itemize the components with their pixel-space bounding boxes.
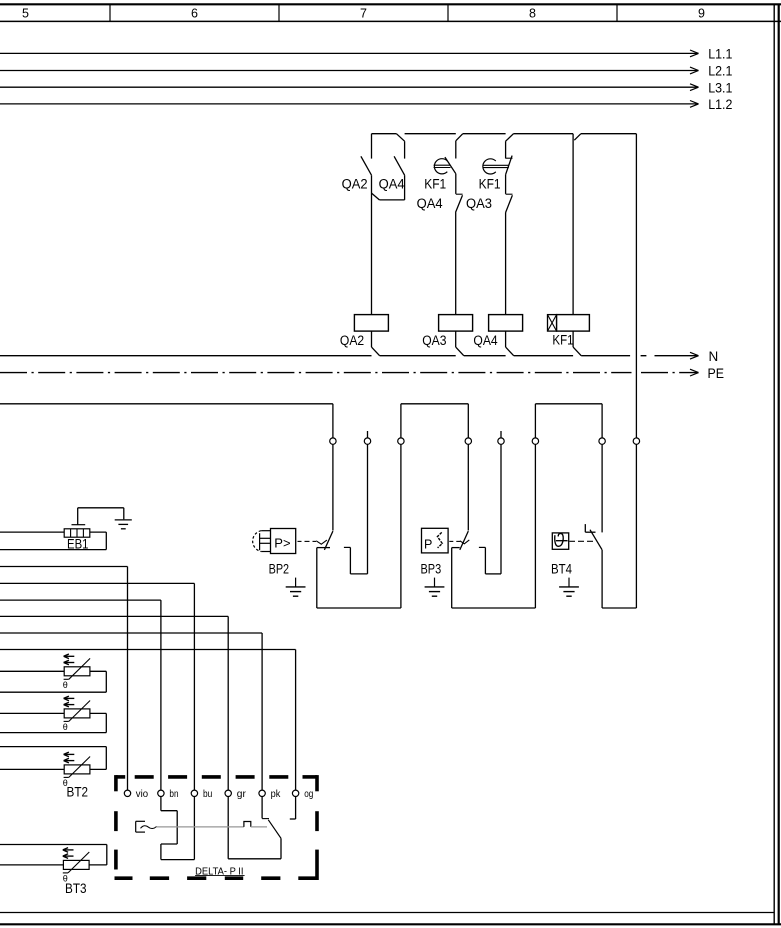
svg-text:QA3: QA3 — [466, 196, 492, 211]
svg-text:gr: gr — [237, 788, 247, 800]
svg-text:QA4: QA4 — [379, 176, 405, 191]
svg-text:QA4: QA4 — [417, 196, 443, 211]
svg-text:QA2: QA2 — [340, 333, 364, 348]
svg-text:8: 8 — [529, 7, 536, 21]
svg-text:KF1: KF1 — [479, 176, 501, 191]
svg-text:bn: bn — [169, 788, 178, 800]
svg-text:L3.1: L3.1 — [708, 80, 732, 95]
svg-text:bu: bu — [203, 788, 212, 800]
svg-text:6: 6 — [191, 7, 198, 21]
svg-text:QA2: QA2 — [342, 176, 368, 191]
svg-text:P>: P> — [274, 536, 290, 550]
svg-text:L1.2: L1.2 — [708, 97, 732, 112]
svg-text:5: 5 — [22, 7, 29, 21]
svg-text:EB1: EB1 — [67, 536, 89, 551]
svg-text:θ: θ — [63, 722, 68, 732]
svg-text:vio: vio — [136, 788, 148, 800]
svg-text:N: N — [709, 349, 719, 364]
svg-text:PE: PE — [708, 366, 725, 381]
svg-text:BT2: BT2 — [67, 784, 89, 799]
svg-text:P: P — [424, 537, 432, 551]
svg-text:BP2: BP2 — [269, 561, 290, 576]
svg-text:KF1: KF1 — [552, 332, 573, 347]
svg-text:BT4: BT4 — [551, 561, 572, 576]
svg-text:9: 9 — [698, 7, 705, 21]
svg-text:L2.1: L2.1 — [708, 64, 732, 79]
svg-text:BP3: BP3 — [421, 561, 442, 576]
svg-text:pk: pk — [271, 788, 281, 800]
svg-text:QA4: QA4 — [473, 333, 498, 348]
svg-text:og: og — [304, 788, 313, 800]
svg-text:θ: θ — [63, 680, 68, 690]
svg-text:BT3: BT3 — [65, 881, 87, 896]
svg-text:7: 7 — [360, 7, 367, 21]
svg-text:KF1: KF1 — [424, 176, 446, 191]
svg-text:L1.1: L1.1 — [708, 47, 732, 62]
svg-text:QA3: QA3 — [422, 333, 446, 348]
